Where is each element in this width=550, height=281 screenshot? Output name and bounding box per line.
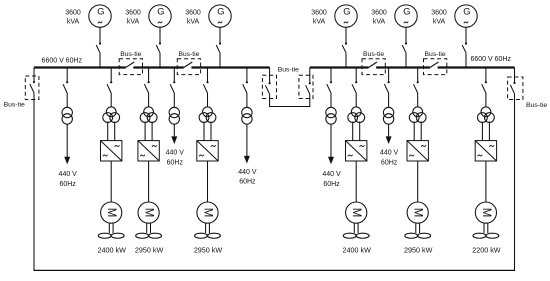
svg-text:Bus-tie: Bus-tie [178,51,199,58]
svg-text:G: G [463,7,470,17]
svg-text:6600 V 60Hz: 6600 V 60Hz [42,58,83,65]
svg-text:G: G [217,7,224,17]
svg-text:kVA: kVA [313,18,326,25]
svg-text:M: M [143,208,155,218]
svg-text:440 V: 440 V [59,171,78,178]
svg-text:3600: 3600 [185,9,201,16]
svg-text:60Hz: 60Hz [323,181,340,188]
svg-text:kVA: kVA [127,18,140,25]
svg-text:Bus-tie: Bus-tie [425,51,446,58]
svg-text:2400 kW: 2400 kW [343,246,372,255]
svg-text:kVA: kVA [373,18,386,25]
svg-text:G: G [403,7,410,17]
svg-text:440 V: 440 V [166,150,185,157]
svg-text:M: M [105,208,117,218]
svg-text:kVA: kVA [187,18,200,25]
svg-text:2950 kW: 2950 kW [404,246,433,255]
svg-text:Bus-tie: Bus-tie [278,67,299,74]
svg-text:Bus-tie: Bus-tie [526,102,547,109]
svg-text:6600 V 60Hz: 6600 V 60Hz [470,56,511,63]
svg-text:G: G [97,7,104,17]
svg-text:Bus-tie: Bus-tie [363,51,384,58]
svg-text:60Hz: 60Hz [381,159,398,166]
svg-text:kVA: kVA [67,18,80,25]
svg-text:2400 kW: 2400 kW [98,246,127,255]
svg-text:440 V: 440 V [322,171,341,178]
svg-text:2950 kW: 2950 kW [194,246,223,255]
svg-text:3600: 3600 [431,9,447,16]
svg-text:2200 kW: 2200 kW [472,246,501,255]
svg-text:M: M [480,208,492,218]
svg-text:G: G [343,7,350,17]
svg-text:Bus-tie: Bus-tie [120,51,141,58]
svg-text:60Hz: 60Hz [167,159,184,166]
svg-text:G: G [157,7,164,17]
svg-text:440 V: 440 V [238,169,257,176]
svg-text:3600: 3600 [65,9,81,16]
svg-text:M: M [412,208,424,218]
svg-text:M: M [350,208,362,218]
svg-text:Bus-tie: Bus-tie [4,101,25,108]
svg-text:3600: 3600 [371,9,387,16]
svg-text:M: M [202,208,214,218]
svg-text:60Hz: 60Hz [239,178,256,185]
svg-text:2950 kW: 2950 kW [135,246,164,255]
svg-text:kVA: kVA [433,18,446,25]
svg-text:3600: 3600 [311,9,327,16]
svg-text:440 V: 440 V [380,150,399,157]
svg-text:60Hz: 60Hz [60,181,77,188]
svg-text:3600: 3600 [125,9,141,16]
